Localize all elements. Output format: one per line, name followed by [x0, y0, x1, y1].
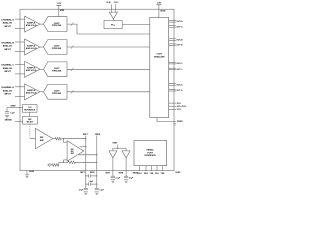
- bus slash A: [71, 22, 74, 25]
- chip boundary: [20, 9, 174, 170]
- svg-text:CHANNEL C: CHANNEL C: [1, 64, 14, 67]
- svg-text:PIPELINE: PIPELINE: [52, 93, 62, 95]
- svg-text:INPUT: INPUT: [4, 94, 11, 96]
- svg-text:SERIALIZER: SERIALIZER: [154, 56, 165, 59]
- svg-text:OUT−D: OUT−D: [176, 90, 183, 92]
- resistor R2 ladder (REFB rail): [76, 161, 97, 163]
- capacitor REFT 0.1uF: [84, 187, 88, 189]
- ADC C (pipeline ADC): [44, 62, 68, 77]
- svg-text:DCO−/FCO: DCO−/FCO: [177, 106, 187, 108]
- bus slash D: [71, 90, 74, 93]
- wire VREF: [7, 107, 23, 109]
- svg-text:0.1µF: 0.1µF: [129, 177, 133, 179]
- buffer B2 (down triangle): [122, 151, 130, 158]
- external REFT/REFB network: [85, 171, 87, 189]
- svg-text:OUT+D: OUT+D: [176, 84, 183, 86]
- pins DCO/FCO: [169, 102, 176, 104]
- wire J1 to REFT: [64, 138, 86, 140]
- svg-text:AGND: AGND: [29, 170, 35, 173]
- pin SCLK: [139, 166, 141, 171]
- capacitor 1.0uF on VREF: [5, 111, 9, 113]
- svg-text:VREF: VREF: [10, 105, 16, 107]
- svg-text:BUF: BUF: [71, 151, 74, 153]
- ground AGND: [25, 174, 29, 176]
- wire B1 to pin: [112, 158, 114, 176]
- wire VIN-D: [15, 95, 25, 97]
- small ground on PDWN: [174, 123, 176, 125]
- svg-text:REFERENCE: REFERENCE: [24, 110, 36, 112]
- svg-text:1.8V: 1.8V: [57, 3, 62, 5]
- svg-text:PLL: PLL: [111, 25, 116, 27]
- wire ref to select: [29, 112, 31, 116]
- svg-text:0.1µF: 0.1µF: [79, 189, 83, 191]
- svg-text:PORT: PORT: [147, 152, 153, 154]
- svg-text:1.0µF: 1.0µF: [10, 113, 14, 115]
- wire SHA-C to ADC: [40, 68, 44, 70]
- wire SENSE: [15, 121, 23, 123]
- buffer B1 (down triangle): [109, 151, 117, 158]
- wire U2 inverting input down: [64, 159, 68, 161]
- svg-text:1.8V: 1.8V: [157, 2, 162, 4]
- resistor R3 to ground: [59, 161, 64, 163]
- wire VIN-A: [15, 28, 25, 30]
- svg-text:OUT−B: OUT−B: [176, 45, 183, 47]
- svg-text:DRVDD: DRVDD: [160, 10, 166, 12]
- 0.5V reference box: [23, 105, 38, 113]
- pin PDN: [162, 166, 164, 171]
- wire VIN+B: [15, 41, 25, 43]
- LVDS output pin pairs: [169, 20, 176, 22]
- bus slash C: [71, 68, 74, 71]
- ADC A (pipeline ADC): [44, 17, 68, 32]
- svg-text:INPUT: INPUT: [4, 71, 11, 73]
- wire U2 lower output to REFB: [79, 154, 97, 156]
- svg-text:REFB: REFB: [95, 134, 101, 136]
- svg-text:0.1µF: 0.1µF: [116, 177, 120, 179]
- svg-text:INPUT: INPUT: [4, 49, 11, 51]
- wire PLL to serializer: [122, 24, 150, 26]
- capacitor on B1 pin: [111, 175, 115, 177]
- pin AGND: [26, 171, 28, 175]
- svg-text:SDIO: SDIO: [144, 173, 149, 175]
- serializer U-LVDS: [150, 17, 169, 117]
- ground REFT cap: [84, 191, 88, 193]
- wire ADC B to serializer: [67, 46, 150, 48]
- capacitor across rung2: [86, 183, 89, 185]
- svg-text:PIPELINE: PIPELINE: [52, 25, 62, 27]
- ground B2 cap: [124, 179, 128, 181]
- wire B2 to pin: [125, 158, 127, 176]
- svg-text:AND HOLD: AND HOLD: [26, 24, 37, 27]
- svg-text:SERIAL: SERIAL: [147, 148, 155, 151]
- svg-text:PIPELINE: PIPELINE: [52, 48, 62, 50]
- capacitor REFB 0.1uF: [95, 187, 99, 189]
- svg-text:DCO: DCO: [177, 103, 182, 105]
- pin SDO: [156, 166, 158, 171]
- sample-and-hold amp A: [25, 16, 41, 32]
- wire VIN+A: [15, 18, 25, 20]
- ground REFB cap: [95, 191, 99, 193]
- svg-text:AND HOLD: AND HOLD: [26, 69, 37, 72]
- wire VIN+D: [15, 86, 25, 88]
- svg-text:SENSE: SENSE: [5, 120, 13, 122]
- svg-text:FCO−: FCO−: [177, 109, 182, 111]
- bus slash B: [71, 45, 74, 48]
- svg-text:CHANNEL A: CHANNEL A: [1, 19, 14, 22]
- op-amp U1 reference buffer: [35, 128, 52, 148]
- clock buffer (down triangle): [109, 12, 117, 19]
- capacitor on B2 pin: [124, 175, 128, 177]
- wire ADC C to serializer: [67, 68, 150, 70]
- wire ADC D to serializer: [67, 91, 150, 93]
- op-amp U2 REFT/REFB driver: [67, 141, 84, 161]
- sample-and-hold amp B: [25, 39, 41, 55]
- svg-text:CLK−: CLK−: [114, 2, 120, 4]
- wire SHA-D to ADC: [40, 91, 44, 93]
- svg-text:OUT+B: OUT+B: [176, 39, 183, 41]
- wire SHA-B to ADC: [40, 46, 44, 48]
- serial port interface box: [134, 141, 167, 166]
- svg-text:0.1µF: 0.1µF: [99, 189, 103, 191]
- svg-text:RBIAS: RBIAS: [133, 172, 139, 175]
- svg-text:ANALOG: ANALOG: [3, 22, 13, 25]
- wire CLK+: [111, 4, 113, 12]
- svg-text:OUT+A: OUT+A: [176, 20, 183, 23]
- svg-text:CLK+: CLK+: [106, 2, 112, 4]
- svg-text:AND HOLD: AND HOLD: [26, 47, 37, 50]
- pin CSB: [151, 166, 153, 171]
- svg-text:PDWN: PDWN: [177, 121, 183, 123]
- ground B1 cap: [111, 179, 115, 181]
- capacitor across rung1: [86, 175, 89, 177]
- svg-text:OUT−A: OUT−A: [176, 25, 183, 28]
- wire VIN+C: [15, 63, 25, 65]
- svg-text:REF: REF: [71, 149, 74, 151]
- svg-text:CHANNEL B: CHANNEL B: [1, 41, 14, 44]
- wire DRVDD: [158, 5, 160, 18]
- wire ADC A to serializer (jogs under PLL): [67, 24, 150, 34]
- svg-text:ANALOG: ANALOG: [3, 45, 13, 48]
- sample-and-hold amp D: [25, 84, 41, 100]
- wire AVDD: [58, 5, 60, 16]
- ground for R3: [49, 163, 51, 167]
- wire VIN-C: [15, 73, 25, 75]
- wire select to ref amp (dotted): [29, 124, 31, 138]
- wire U2 upper output to REFT: [80, 146, 86, 148]
- wire VIN-B: [15, 51, 25, 53]
- ground VREF cap: [5, 114, 9, 116]
- svg-text:REFB: REFB: [90, 172, 95, 174]
- svg-text:CHANNEL D: CHANNEL D: [1, 86, 14, 89]
- wire J1 down to ref driver: [63, 139, 65, 143]
- wire clock buffer to PLL: [112, 19, 114, 21]
- svg-text:ANALOG: ANALOG: [3, 67, 13, 70]
- svg-text:INPUT: INPUT: [4, 26, 11, 28]
- svg-text:REFB: REFB: [119, 172, 124, 174]
- wire CLK-: [115, 4, 117, 12]
- ADC B (pipeline ADC): [44, 40, 68, 55]
- svg-text:DGND: DGND: [175, 172, 181, 174]
- REF SELECT box: [23, 117, 38, 125]
- ADC D (pipeline ADC): [44, 84, 68, 99]
- pin SDIO: [145, 166, 147, 171]
- wire SHA-A to ADC: [40, 23, 44, 25]
- PLL box: [104, 21, 122, 29]
- node J2 on REFT: [85, 138, 86, 139]
- svg-text:INTERFACE: INTERFACE: [145, 154, 157, 157]
- svg-text:ANALOG: ANALOG: [3, 89, 13, 92]
- sample-and-hold amp C: [25, 61, 41, 77]
- svg-text:OUT−C: OUT−C: [176, 69, 183, 71]
- node J1: [63, 138, 64, 139]
- svg-text:AND HOLD: AND HOLD: [26, 92, 37, 95]
- resistor R1 after ref amp: [53, 138, 55, 140]
- pin PDWN from serializer bottom: [157, 118, 176, 122]
- svg-text:PIPELINE: PIPELINE: [52, 70, 62, 72]
- svg-text:LVDS: LVDS: [157, 54, 163, 56]
- svg-text:OUT+C: OUT+C: [176, 63, 183, 65]
- svg-text:SELECT: SELECT: [26, 122, 34, 124]
